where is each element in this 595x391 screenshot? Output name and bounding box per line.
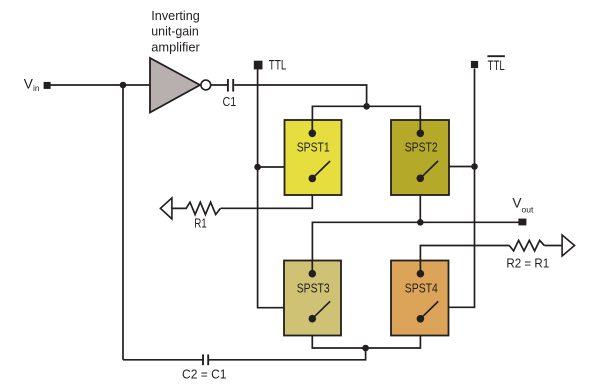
svg-text:unit-gain: unit-gain (151, 24, 199, 39)
wire Vout node to Vout terminal (420, 221, 518, 223)
resistor R1 (173, 202, 221, 214)
junction node at input (120, 82, 127, 89)
terminal square V_in (44, 82, 51, 89)
svg-text:Vin: Vin (24, 76, 40, 93)
wire C1 output run to distribution riser (234, 85, 366, 106)
wire V_in to amplifier input (50, 84, 150, 86)
terminal square V_out (518, 219, 526, 226)
svg-text:SPST2: SPST2 (405, 139, 438, 154)
wire TTL to SPST1 control (258, 166, 285, 168)
wire bottom run to C2 left plate (123, 359, 203, 361)
wire SPST3 pole to bottom node (312, 319, 365, 348)
wire C2 right plate to riser (208, 348, 365, 360)
wire SPST2 pole down to Vout node (419, 178, 421, 222)
junction node TTLbar branch (471, 163, 478, 170)
wire SPST4 pole to bottom node (366, 319, 421, 348)
switch SPST3 box (284, 261, 341, 336)
svg-text:Inverting: Inverting (151, 8, 200, 23)
svg-text:C2 = C1: C2 = C1 (182, 367, 227, 382)
svg-text:R1: R1 (194, 215, 207, 230)
wire left vertical drop from input node (122, 85, 124, 360)
arrow output R1 (left-pointing open triangle) (160, 198, 172, 219)
wire distribution bus to SPST1 and SPST2 tops (312, 106, 420, 133)
switch SPST2 box (391, 120, 449, 195)
svg-text:TTL: TTL (269, 58, 287, 73)
svg-text:R2 = R1: R2 = R1 (506, 256, 549, 271)
switch SPST1 box (285, 120, 342, 195)
terminal square TTL (254, 61, 263, 70)
wire TTLbar to SPST2 control (449, 166, 475, 168)
svg-text:C1: C1 (223, 94, 237, 109)
svg-text:amplifier: amplifier (151, 39, 200, 54)
wire Vout node to SPST3 top (312, 222, 420, 273)
svg-text:SPST1: SPST1 (297, 139, 330, 154)
wire R2 branch to SPST4 top (420, 246, 509, 274)
arrow output R2 (right-pointing open triangle) (562, 235, 574, 256)
svg-text:SPST3: SPST3 (297, 281, 330, 296)
switch SPST4 box (391, 261, 449, 336)
junction node distribution bus (363, 103, 370, 110)
svg-text:Vout: Vout (512, 196, 534, 215)
capacitor C1 (228, 79, 233, 92)
wire R1 to SPST1 pole (221, 178, 313, 208)
svg-text:SPST4: SPST4 (405, 281, 438, 296)
junction node TTL branch (254, 164, 261, 171)
inverter bubble (201, 80, 211, 90)
wire TTL control line (258, 69, 285, 308)
terminal square TTLbar (471, 61, 478, 68)
junction node Vout (417, 219, 424, 226)
wire R2 to output arrow (544, 245, 562, 247)
wire bubble to C1 (211, 84, 227, 86)
wire TTLbar control line (449, 69, 475, 308)
capacitor C2 (203, 354, 208, 365)
junction node bottom (362, 345, 369, 352)
resistor R2 (509, 240, 544, 251)
op-amp U1 inverting unit-gain amplifier triangle (150, 58, 200, 113)
svg-text:TTL: TTL (488, 58, 505, 73)
